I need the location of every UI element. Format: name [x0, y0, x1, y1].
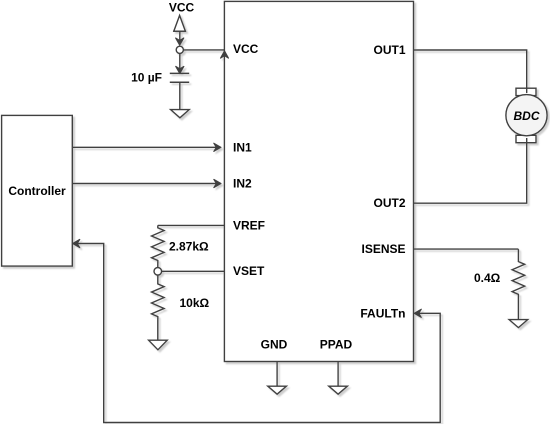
PPAD pin wire	[337, 362, 339, 387]
wire OUT1 to motor	[414, 50, 527, 93]
svg-text:IN1: IN1	[233, 141, 252, 155]
resistor R2 10k	[152, 275, 165, 340]
wire ISENSE to resistor R3	[414, 248, 519, 250]
svg-text:PPAD: PPAD	[320, 338, 353, 352]
wire VCC supply to node	[176, 31, 184, 45]
ground (GND pin)	[268, 386, 287, 394]
capacitor C1 10uF	[170, 73, 189, 82]
node VCC junction	[176, 46, 183, 53]
VCC power symbol	[173, 15, 186, 31]
svg-text:Controller: Controller	[8, 184, 66, 198]
motor M1 BDC terminal bottom	[516, 135, 536, 142]
ground (R3)	[509, 320, 528, 328]
wire capacitor to ground	[179, 82, 181, 109]
ground (R2)	[149, 340, 168, 350]
wire node to capacitor	[176, 53, 184, 73]
motor M1 BDC body	[506, 95, 547, 136]
svg-text:VCC: VCC	[169, 1, 195, 15]
wire VSET	[162, 270, 225, 272]
svg-text:FAULTn: FAULTn	[360, 307, 405, 321]
resistor R3 0.4ohm	[512, 249, 525, 319]
svg-text:10 µF: 10 µF	[131, 70, 162, 84]
resistor R1 2.87k	[152, 225, 165, 267]
svg-text:VCC: VCC	[233, 42, 259, 56]
svg-text:ISENSE: ISENSE	[361, 242, 405, 256]
svg-text:BDC: BDC	[514, 109, 540, 123]
wire motor to OUT2	[414, 138, 527, 203]
wire VREF to resistor R1	[158, 224, 225, 226]
svg-text:VSET: VSET	[233, 264, 265, 278]
IC U1 box	[224, 1, 413, 361]
node VSET junction	[154, 268, 162, 276]
wire IN2	[72, 179, 221, 187]
ground (PPAD pin)	[329, 386, 348, 394]
svg-text:IN2: IN2	[233, 177, 252, 191]
motor M1 BDC terminal top	[516, 88, 536, 95]
svg-text:10kΩ: 10kΩ	[180, 296, 210, 310]
wire FAULTn feedback loop	[73, 239, 441, 422]
svg-text:0.4Ω: 0.4Ω	[474, 271, 501, 285]
wire node to VCC pin	[183, 50, 228, 58]
ground (capacitor)	[171, 110, 190, 118]
svg-text:OUT2: OUT2	[373, 196, 405, 210]
GND pin wire	[276, 362, 278, 387]
wire IN1	[72, 143, 221, 151]
svg-text:GND: GND	[261, 338, 288, 352]
svg-text:VREF: VREF	[233, 218, 265, 232]
svg-text:OUT1: OUT1	[373, 43, 405, 57]
controller box	[2, 115, 73, 266]
svg-text:2.87kΩ: 2.87kΩ	[169, 240, 209, 254]
